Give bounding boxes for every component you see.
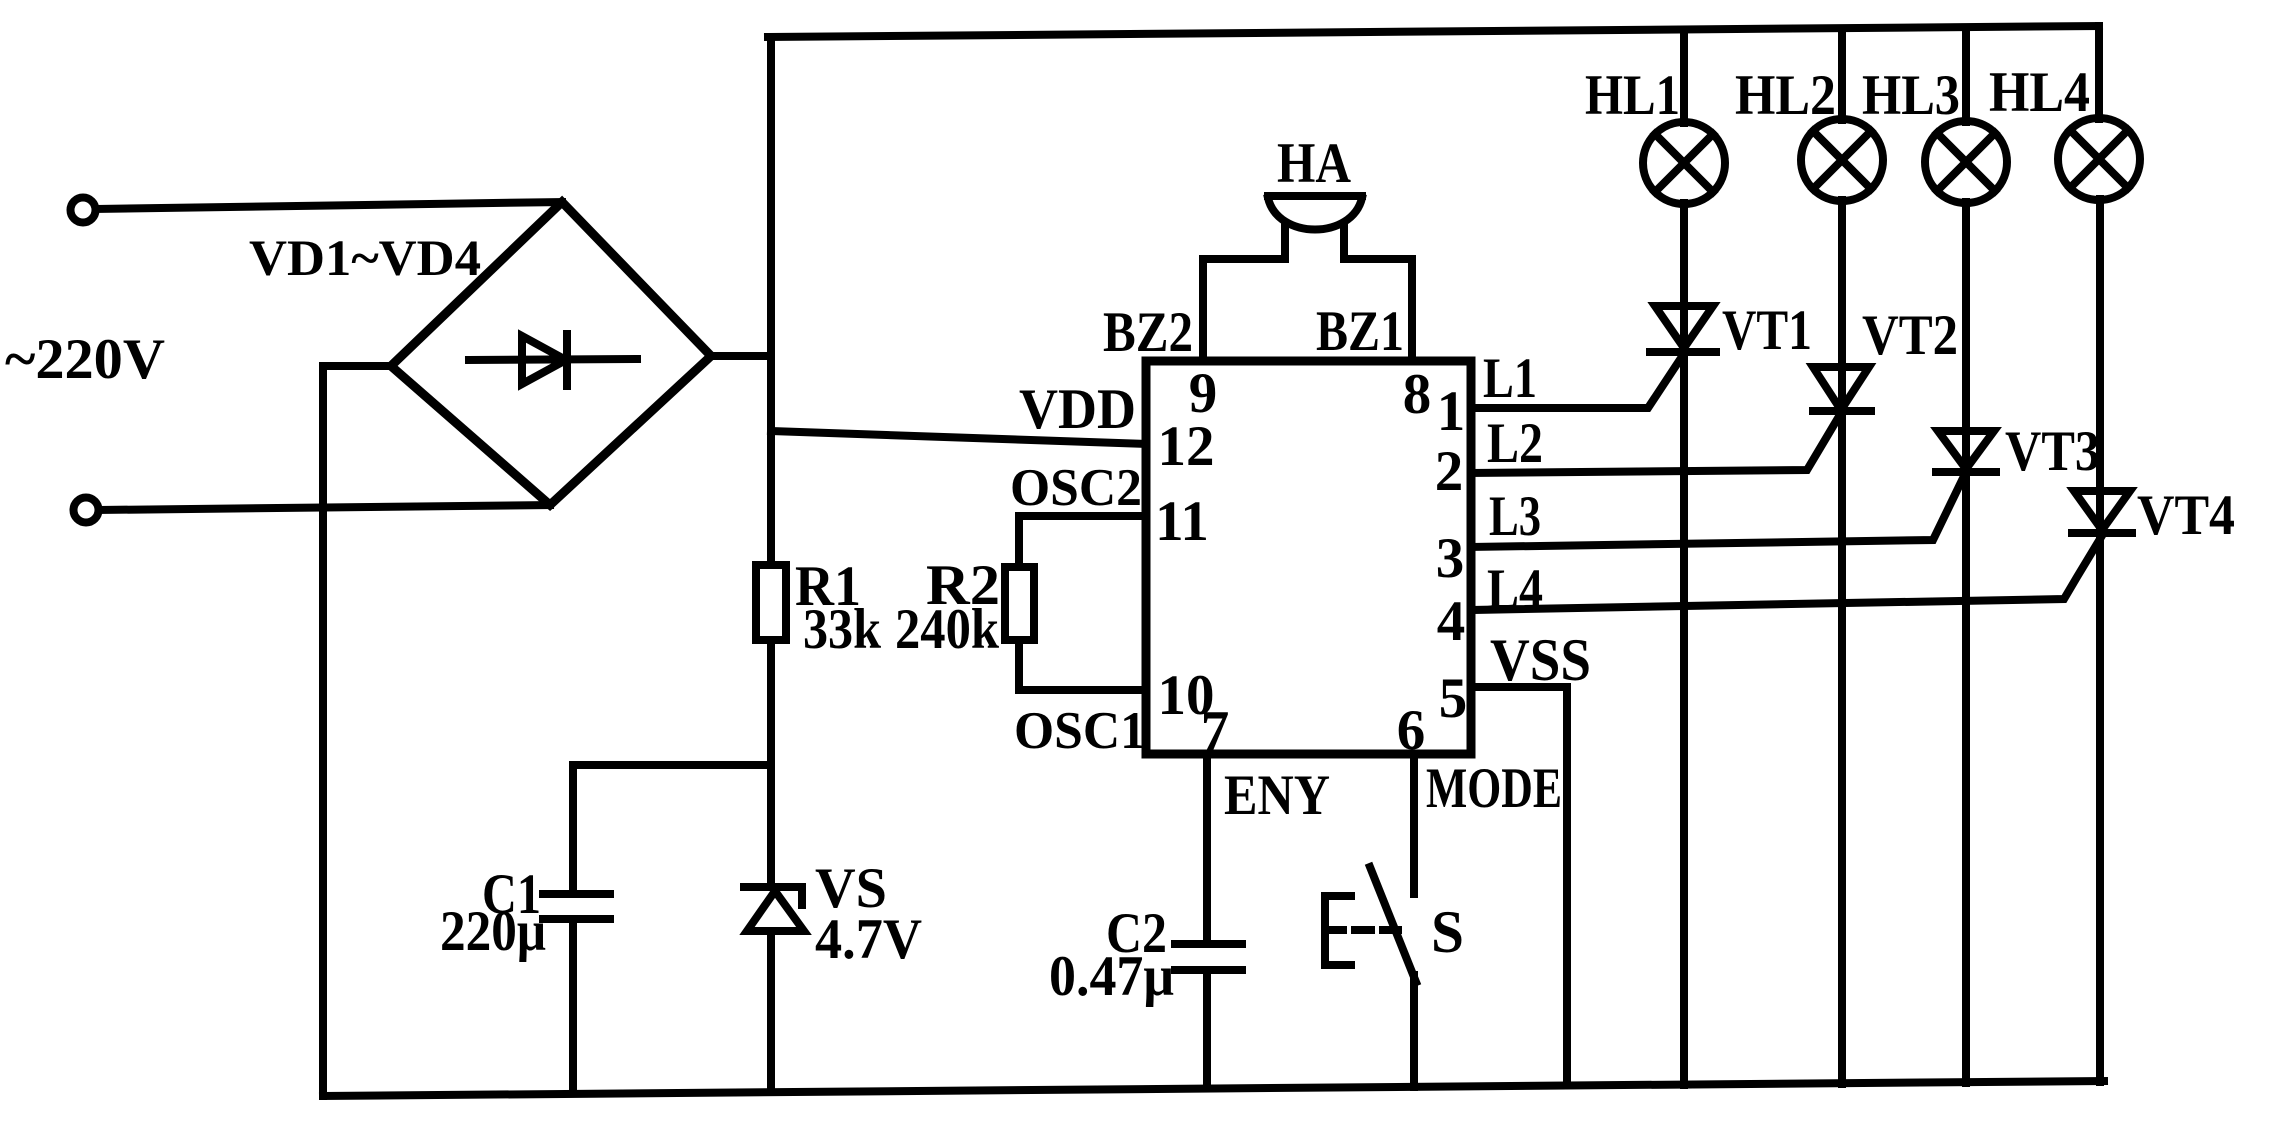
svg-text:11: 11 bbox=[1155, 490, 1209, 553]
svg-text:HL3: HL3 bbox=[1862, 64, 1960, 127]
svg-text:S: S bbox=[1431, 899, 1464, 965]
svg-text:L4: L4 bbox=[1487, 558, 1543, 621]
svg-text:7: 7 bbox=[1201, 700, 1230, 763]
svg-text:ENY: ENY bbox=[1224, 764, 1330, 827]
svg-text:HL2: HL2 bbox=[1735, 64, 1836, 127]
svg-text:OSC2: OSC2 bbox=[1010, 459, 1142, 517]
svg-text:L3: L3 bbox=[1489, 485, 1541, 548]
svg-text:VT1: VT1 bbox=[1722, 299, 1812, 362]
svg-text:OSC1: OSC1 bbox=[1014, 702, 1146, 760]
svg-text:12: 12 bbox=[1158, 415, 1215, 478]
svg-text:~220V: ~220V bbox=[5, 328, 165, 391]
svg-text:L1: L1 bbox=[1483, 347, 1537, 410]
svg-text:4: 4 bbox=[1437, 590, 1466, 653]
svg-text:8: 8 bbox=[1403, 363, 1432, 426]
svg-text:4.7V: 4.7V bbox=[815, 908, 922, 971]
svg-text:HL4: HL4 bbox=[1989, 61, 2090, 124]
svg-text:VSS: VSS bbox=[1490, 627, 1591, 693]
svg-text:VDD: VDD bbox=[1019, 378, 1136, 441]
svg-text:2: 2 bbox=[1435, 440, 1464, 503]
svg-text:220μ: 220μ bbox=[440, 900, 546, 963]
svg-text:VT2: VT2 bbox=[1862, 304, 1958, 367]
svg-text:240k: 240k bbox=[895, 598, 999, 661]
svg-text:VT4: VT4 bbox=[2137, 484, 2235, 547]
svg-text:1: 1 bbox=[1437, 380, 1466, 443]
svg-text:HL1: HL1 bbox=[1585, 64, 1680, 127]
svg-text:33k: 33k bbox=[803, 598, 881, 661]
svg-text:3: 3 bbox=[1436, 527, 1465, 590]
svg-text:5: 5 bbox=[1439, 667, 1468, 730]
svg-text:L2: L2 bbox=[1487, 412, 1543, 475]
svg-text:VD1~VD4: VD1~VD4 bbox=[249, 231, 481, 287]
svg-text:BZ1: BZ1 bbox=[1316, 300, 1404, 363]
svg-text:HA: HA bbox=[1277, 132, 1351, 195]
svg-text:6: 6 bbox=[1397, 699, 1426, 762]
svg-text:BZ2: BZ2 bbox=[1103, 301, 1193, 364]
svg-text:VT3: VT3 bbox=[2005, 420, 2100, 483]
svg-text:0.47μ: 0.47μ bbox=[1049, 945, 1174, 1008]
svg-text:MODE: MODE bbox=[1426, 757, 1562, 820]
